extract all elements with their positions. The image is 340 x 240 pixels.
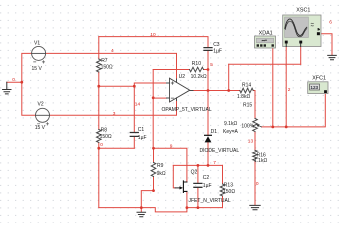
wire: +15V rail V1 to op-amp V+ (net 4) xyxy=(46,53,177,79)
svg-text:150Ω: 150Ω xyxy=(223,189,235,195)
op-amp U2 OPAMP_5T_VIRTUAL xyxy=(170,78,190,102)
wire: wiper to XFC1 (net 2) xyxy=(262,94,326,127)
wire: R10 leads (net 5 right) xyxy=(153,69,208,71)
svg-text:XDA1: XDA1 xyxy=(259,30,273,36)
wire: R9 top/bottom leads xyxy=(153,148,155,190)
svg-text:7: 7 xyxy=(213,160,216,166)
wire: R7 column leads xyxy=(98,37,100,87)
svg-text:V1: V1 xyxy=(34,41,40,47)
wire: JFET source down xyxy=(186,191,188,207)
wire: R9 bottom to ground rail xyxy=(141,191,153,208)
diode D1 (anode bottom, cathode top) xyxy=(205,134,212,136)
svg-text:15 V: 15 V xyxy=(35,125,46,131)
wire: gate loop xyxy=(173,165,175,188)
resistor R7 150ohm xyxy=(97,59,102,72)
potentiometer R15 xyxy=(253,119,258,132)
wire: output tap riser xyxy=(228,64,230,90)
resistor R16 xyxy=(253,150,258,160)
resistor R10 10.2k xyxy=(190,67,204,72)
wire: scope B down to output tap xyxy=(300,44,302,65)
wire: output rail down C3-R10-out-D1 (net 5) xyxy=(207,50,209,135)
junction ground rail node xyxy=(140,206,143,209)
wire: node 7 horizontal xyxy=(173,164,222,166)
svg-text:JFET_N_VIRTUAL: JFET_N_VIRTUAL xyxy=(189,198,231,204)
resistor R13 150ohm xyxy=(220,184,225,196)
svg-text:C2: C2 xyxy=(203,175,210,181)
junction ground rail at Q2 source xyxy=(186,206,189,209)
capacitor C1 1uF xyxy=(130,133,138,137)
svg-text:5: 5 xyxy=(210,62,213,68)
svg-text:R14: R14 xyxy=(242,82,251,88)
wire: bottom ground rail xyxy=(99,208,223,212)
resistor R9 xyxy=(151,163,156,177)
svg-text:150Ω: 150Ω xyxy=(101,65,113,71)
junction node 9 at R9 top xyxy=(152,147,155,150)
svg-text:9kΩ: 9kΩ xyxy=(157,171,166,177)
voltage source V2 xyxy=(36,108,50,122)
wire: ground stub center xyxy=(140,208,142,212)
oscilloscope XSC1 xyxy=(283,8,321,47)
transistor Q2 JFET_N_VIRTUAL xyxy=(183,181,187,193)
junction node 7 at D1 xyxy=(207,164,210,167)
svg-text:13: 13 xyxy=(248,138,254,144)
wire: feedback column R10-left down to inverting input and R9 xyxy=(152,70,154,149)
svg-text:9.1kΩ: 9.1kΩ xyxy=(224,121,237,127)
distortion analyzer XDA1 xyxy=(255,30,276,48)
svg-text:R15: R15 xyxy=(243,102,252,108)
wire: R8/C1 bottom to ground drop (net 0) xyxy=(99,148,135,207)
wire: R13 branch xyxy=(222,165,224,207)
wire: -15V rail V2 to op-amp V- (net 3) xyxy=(49,100,176,115)
junction node 7 at C2 xyxy=(197,164,200,167)
wire: node9 over to JFET drain (net 9) xyxy=(154,148,187,182)
svg-text:DIODE_VIRTUAL: DIODE_VIRTUAL xyxy=(200,148,240,154)
svg-text:10.2kΩ: 10.2kΩ xyxy=(191,74,207,80)
ground (center bottom) xyxy=(137,212,146,216)
svg-text:0: 0 xyxy=(256,181,259,187)
svg-text:100%: 100% xyxy=(241,123,254,129)
wire: scope G to ground right (net 6) xyxy=(320,34,332,55)
svg-text:XFC1: XFC1 xyxy=(312,76,326,82)
svg-text:9: 9 xyxy=(170,143,173,149)
svg-text:1µF: 1µF xyxy=(138,135,147,141)
junction node at R9 bottom xyxy=(152,189,155,192)
net number labels xyxy=(12,20,332,188)
svg-text:1µF: 1µF xyxy=(213,48,222,54)
junction inverting input node xyxy=(152,96,155,99)
svg-text:Q2: Q2 xyxy=(191,170,198,176)
svg-text:C3: C3 xyxy=(213,42,220,48)
wire: op-amp output to pot top (net 5/13 via R14) xyxy=(193,91,255,119)
svg-text:10: 10 xyxy=(150,32,156,38)
wire: output tap horizontal (net 5) xyxy=(229,63,301,65)
junction node 5 at output xyxy=(207,89,210,92)
ground (left, net 0) xyxy=(3,82,11,94)
svg-text:R10: R10 xyxy=(192,61,201,67)
junction node 14 at C1 xyxy=(133,85,136,88)
svg-text:1µF: 1µF xyxy=(203,183,212,189)
junction node 2 at scope A wire xyxy=(285,126,288,129)
svg-text:3: 3 xyxy=(113,111,116,117)
svg-text:15 V: 15 V xyxy=(32,66,43,72)
resistor R14 xyxy=(240,88,253,93)
svg-text:0: 0 xyxy=(12,77,15,83)
svg-text:D1: D1 xyxy=(211,129,218,135)
wire: ground junction horizontal (net 0) xyxy=(7,81,22,83)
wire: V1 left to ground junction xyxy=(22,53,32,82)
wire: pot bottom to R16 (net 13) xyxy=(254,132,256,151)
voltage source V1 xyxy=(32,46,46,60)
wire: non-inv node horizontal (net 14) xyxy=(99,83,167,86)
svg-text:2: 2 xyxy=(288,87,291,93)
wire: R8 branch down xyxy=(98,86,100,148)
junction ground node xyxy=(20,81,23,84)
wire: C1 branch down xyxy=(133,86,135,148)
svg-text:Key=A: Key=A xyxy=(223,129,239,135)
svg-text:123: 123 xyxy=(310,85,318,90)
junction node 5 at R10 xyxy=(207,68,210,71)
wire: XDA1 down to wiper net xyxy=(272,48,274,127)
wire: R16 to ground xyxy=(254,161,256,205)
svg-text:U2: U2 xyxy=(179,74,186,80)
wire: top wire C3 to R7 top (net 10) xyxy=(99,37,208,48)
junction ground rail at C2 xyxy=(197,206,200,209)
junction node 0 at R8 bottom xyxy=(97,147,100,150)
svg-text:6: 6 xyxy=(329,20,332,26)
ground (below R16) xyxy=(250,205,260,209)
svg-text:OPAMP_5T_VIRTUAL: OPAMP_5T_VIRTUAL xyxy=(162,107,212,113)
wire: junction down to V2 xyxy=(22,82,36,115)
svg-text:14: 14 xyxy=(135,101,141,107)
svg-text:R8: R8 xyxy=(101,128,108,134)
svg-text:C1: C1 xyxy=(138,127,145,133)
ground (right of scope, net 6) xyxy=(328,55,337,59)
frequency counter XFC1 xyxy=(308,76,328,94)
svg-text:XSC1: XSC1 xyxy=(296,8,310,14)
svg-text:V2: V2 xyxy=(38,101,44,107)
wire: D1 anode down to node 7 xyxy=(207,142,209,165)
svg-text:0: 0 xyxy=(100,142,103,148)
svg-text:1.1kΩ: 1.1kΩ xyxy=(254,158,267,164)
capacitor C2 1uF xyxy=(194,183,202,187)
wire: C2 branch xyxy=(197,165,199,207)
junction node 2 at XDA1 wire xyxy=(271,126,274,129)
svg-text:R7: R7 xyxy=(101,58,108,64)
wire: inverting input stub xyxy=(153,97,166,99)
capacitor C3 1uF xyxy=(204,48,212,51)
svg-text:R13: R13 xyxy=(224,183,233,189)
svg-text:150Ω: 150Ω xyxy=(100,134,112,140)
junction node 5 at instrument tap xyxy=(227,89,230,92)
svg-text:R9: R9 xyxy=(157,163,164,169)
wire: scope A down to wiper net xyxy=(285,44,287,127)
svg-text:4: 4 xyxy=(111,48,114,54)
junction node 14 at R7/R8 xyxy=(97,85,100,88)
resistor R8 150ohm xyxy=(97,130,102,143)
svg-text:1.8kΩ: 1.8kΩ xyxy=(237,94,250,100)
